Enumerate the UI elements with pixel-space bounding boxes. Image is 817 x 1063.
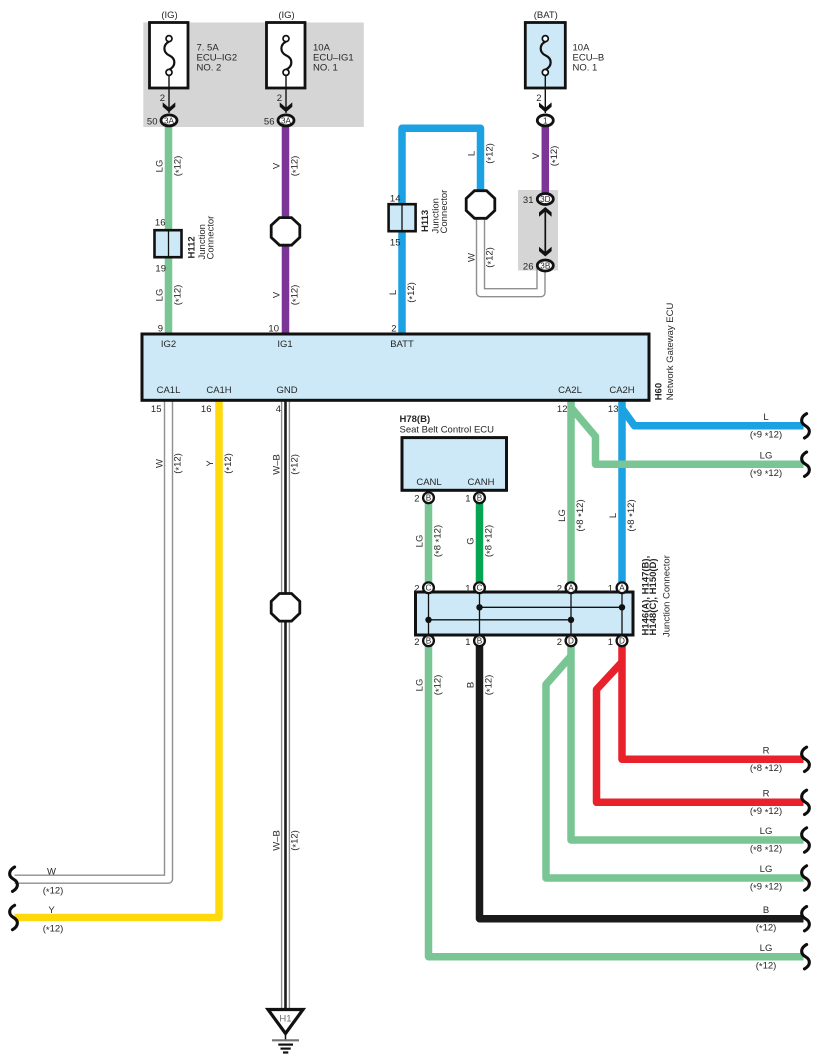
svg-text:H1: H1 (279, 1014, 291, 1025)
svg-text:9: 9 (158, 324, 163, 335)
ECU H78(B) Seat Belt Control ECU box (402, 438, 507, 491)
svg-text:12: 12 (557, 404, 568, 415)
svg-text:(*8 *12): (*8 *12) (575, 499, 587, 531)
continuation symbol W left (10, 867, 18, 891)
connector 3D (537, 194, 553, 205)
svg-text:R: R (763, 746, 770, 757)
wire LG fuse ECU-IG2 to IG2 pin (net IG2) (165, 126, 173, 338)
svg-text:1: 1 (608, 583, 613, 594)
wire LG from junction connector D to right continuation (*8) (571, 645, 804, 840)
svg-text:NO. 1: NO. 1 (313, 62, 338, 73)
internal pin-through lines (428, 593, 430, 634)
connector pin 1 (B) CANH (474, 492, 485, 503)
svg-text:L: L (608, 513, 619, 518)
svg-text:B: B (763, 905, 769, 916)
svg-text:NO. 1: NO. 1 (573, 62, 598, 73)
svg-text:A: A (568, 584, 574, 593)
svg-text:(*8 *12): (*8 *12) (626, 499, 638, 531)
ground H1 (268, 1010, 303, 1034)
svg-text:Y: Y (48, 905, 55, 916)
svg-text:(*12): (*12) (289, 156, 301, 177)
wire W from octagon to connector 3B (481, 212, 542, 293)
svg-text:3A: 3A (164, 116, 175, 125)
svg-text:(IG): (IG) (161, 10, 177, 21)
svg-text:1: 1 (608, 637, 613, 648)
svg-text:(*12): (*12) (43, 885, 64, 897)
fuse 10A ECU-B NO.1 (525, 23, 565, 89)
svg-text:GND: GND (276, 385, 297, 396)
connector 1 (537, 115, 553, 126)
wire LG from CA2L pin to junction connector A (567, 400, 575, 590)
svg-text:(*9 *12): (*9 *12) (750, 882, 782, 894)
svg-text:W: W (47, 867, 56, 878)
svg-text:R: R (763, 789, 770, 800)
svg-text:2: 2 (391, 324, 396, 335)
svg-text:13: 13 (608, 404, 619, 415)
svg-text:IG2: IG2 (161, 339, 176, 350)
wire W-B ground wire from GND pin to ground H1 (281, 400, 290, 1009)
fuse lead line pin 2 (285, 75, 287, 114)
svg-text:2: 2 (557, 583, 562, 594)
continuation symbol LG right 3 (802, 866, 810, 890)
svg-text:B: B (426, 637, 432, 646)
svg-text:CANH: CANH (468, 477, 495, 488)
svg-text:(*12): (*12) (406, 282, 418, 303)
continuation symbol LG right (802, 452, 810, 476)
svg-text:2: 2 (557, 637, 562, 648)
svg-text:BATT: BATT (390, 339, 414, 350)
svg-text:CA1H: CA1H (206, 385, 231, 396)
connector 3A (left) (161, 115, 177, 126)
svg-text:Junction Connector: Junction Connector (661, 555, 672, 637)
svg-text:1: 1 (465, 493, 470, 504)
svg-text:(IG): (IG) (278, 10, 294, 21)
arrow to connector 1 (539, 102, 552, 112)
svg-text:LG: LG (414, 679, 425, 692)
octagon junction on IG1 wire (271, 218, 300, 246)
svg-text:(*12): (*12) (43, 924, 64, 936)
wire L from CA2H pin to junction connector A (618, 400, 626, 590)
junction connector block H146(A) H147(B) H148(C) H150(D) (416, 592, 634, 635)
svg-text:LG: LG (557, 509, 568, 522)
wire L battery feed: BATT pin up, right, down to junction octagon (402, 128, 481, 338)
continuation symbol LG right 4 (802, 945, 810, 969)
svg-text:Network Gateway ECU: Network Gateway ECU (665, 302, 676, 400)
continuation symbol LG right 2 (802, 828, 810, 852)
svg-text:10: 10 (268, 324, 279, 335)
svg-text:(*9 *12): (*9 *12) (750, 429, 782, 441)
svg-text:IG1: IG1 (277, 339, 292, 350)
svg-text:C: C (426, 584, 432, 593)
svg-text:(*8 *12): (*8 *12) (483, 525, 495, 557)
wire V fuse ECU-IG1 to IG1 pin (net IG1) (282, 126, 290, 338)
svg-text:2: 2 (277, 93, 282, 104)
svg-text:26: 26 (523, 261, 534, 272)
svg-text:1: 1 (465, 583, 470, 594)
svg-text:LG: LG (760, 826, 773, 837)
svg-text:B: B (477, 637, 483, 646)
svg-text:2: 2 (414, 493, 419, 504)
svg-text:W: W (154, 459, 165, 468)
svg-text:(*12): (*12) (289, 285, 301, 306)
grey fuse panel background (143, 23, 363, 128)
svg-text:16: 16 (201, 404, 212, 415)
svg-text:1: 1 (543, 116, 548, 125)
wire B from junction connector B to right continuation (480, 645, 804, 919)
svg-text:Connector: Connector (205, 216, 216, 260)
junction block bottom pins (423, 635, 434, 646)
svg-text:(*12): (*12) (289, 830, 301, 851)
svg-text:H112: H112 (186, 236, 197, 258)
continuation symbol L right (802, 414, 810, 438)
connector pin 2 (B) CANL (423, 492, 434, 503)
svg-text:56: 56 (264, 116, 275, 127)
svg-text:LG: LG (154, 289, 165, 302)
connector 3A (right) (278, 115, 294, 126)
continuation symbol R right (802, 747, 810, 771)
fuse lead line pin 2 (168, 75, 170, 114)
junction connector H112 (155, 230, 182, 257)
svg-text:B: B (465, 682, 476, 688)
connector 3B (537, 260, 553, 271)
svg-text:(*9 *12): (*9 *12) (750, 468, 782, 480)
svg-text:L: L (763, 412, 768, 423)
ECU H60 Network Gateway ECU box (142, 334, 649, 400)
fuse 10A ECU-IG1 NO.1 (267, 23, 306, 89)
svg-text:L: L (388, 290, 399, 295)
svg-text:B: B (426, 494, 432, 503)
svg-text:LG: LG (760, 943, 773, 954)
svg-text:W–B: W–B (271, 454, 282, 475)
wire LG from junction connector B to right continuation (429, 645, 804, 957)
svg-text:V: V (271, 291, 282, 298)
svg-text:(*12): (*12) (756, 960, 777, 972)
svg-text:Connector: Connector (439, 190, 450, 234)
wire R branch from junction connector D to right continuation (*9) (597, 662, 804, 802)
svg-text:(*8 *12): (*8 *12) (750, 763, 782, 775)
svg-text:(*8 *12): (*8 *12) (750, 844, 782, 856)
svg-text:3A: 3A (281, 116, 292, 125)
svg-text:(*12): (*12) (172, 453, 184, 474)
svg-text:3B: 3B (540, 262, 551, 271)
arrow to connector 3A (163, 102, 176, 112)
svg-text:15: 15 (390, 237, 401, 248)
svg-text:LG: LG (760, 864, 773, 875)
svg-text:4: 4 (276, 404, 281, 415)
svg-text:Seat Belt Control ECU: Seat Belt Control ECU (400, 424, 495, 435)
svg-text:CANL: CANL (416, 477, 441, 488)
svg-text:(*12): (*12) (483, 675, 495, 696)
svg-text:CA2L: CA2L (558, 385, 582, 396)
svg-text:W: W (466, 253, 477, 262)
svg-text:C: C (477, 584, 483, 593)
wire G from seat belt ECU CANH to junction connector C (476, 503, 484, 590)
svg-text:2: 2 (414, 637, 419, 648)
grey panel around connectors 3D/3B (518, 190, 558, 271)
svg-text:(*12): (*12) (172, 156, 184, 177)
continuation symbol B right (802, 907, 810, 931)
svg-text:W–B: W–B (271, 830, 282, 851)
svg-text:LG: LG (760, 450, 773, 461)
wire LG branch from junction connector D to right continuation (*9) (546, 656, 804, 878)
svg-text:31: 31 (523, 195, 534, 206)
svg-text:H78(B): H78(B) (400, 414, 431, 425)
svg-text:V: V (271, 162, 282, 169)
svg-text:H60: H60 (654, 383, 665, 400)
svg-text:L: L (466, 151, 477, 156)
svg-text:15: 15 (151, 404, 162, 415)
internal bus lower with junction dots (429, 619, 572, 621)
svg-text:16: 16 (155, 218, 166, 229)
svg-text:D: D (619, 637, 625, 646)
svg-text:LG: LG (414, 535, 425, 548)
junction block top pins (423, 582, 434, 593)
svg-text:V: V (531, 152, 542, 159)
continuation symbol Y left (10, 905, 18, 929)
svg-text:CA1L: CA1L (157, 385, 181, 396)
svg-text:2: 2 (414, 583, 419, 594)
svg-text:(*12): (*12) (756, 922, 777, 934)
svg-text:Y: Y (205, 460, 216, 467)
svg-text:(*8 *12): (*8 *12) (432, 525, 444, 557)
svg-text:1: 1 (465, 637, 470, 648)
svg-text:(*12): (*12) (289, 454, 301, 475)
svg-text:D: D (568, 637, 574, 646)
svg-text:(*12): (*12) (549, 146, 561, 167)
svg-text:G: G (465, 537, 476, 544)
svg-text:(*9 *12): (*9 *12) (750, 806, 782, 818)
svg-text:2: 2 (536, 93, 541, 104)
svg-text:19: 19 (155, 264, 166, 275)
double arrow between 3D and 3B (544, 211, 546, 253)
svg-text:(*12): (*12) (484, 247, 496, 268)
svg-text:14: 14 (390, 193, 401, 204)
arrow to connector 3A (280, 102, 293, 112)
svg-text:H113: H113 (420, 210, 431, 232)
svg-text:(BAT): (BAT) (534, 10, 558, 21)
svg-text:H148(C), H150(D): H148(C), H150(D) (648, 558, 659, 635)
wire R from junction connector D to right continuation (*8) (622, 645, 804, 759)
wire L branch from CA2H to right continuation (622, 409, 804, 426)
junction connector H113 (389, 204, 416, 231)
svg-text:2: 2 (160, 93, 165, 104)
wire LG from seat belt ECU CANL to junction connector C (425, 503, 433, 590)
wire V fuse ECU-B to connector 3D (542, 126, 550, 194)
continuation symbol R right 2 (802, 790, 810, 814)
octagon junction on battery L/W wire (466, 191, 495, 219)
svg-text:LG: LG (154, 160, 165, 173)
fuse lead line pin 2 (544, 75, 546, 114)
svg-text:3D: 3D (540, 195, 551, 204)
wire W from CA1L pin to left continuation (15, 400, 169, 879)
svg-text:A: A (619, 584, 625, 593)
octagon junction on ground W-B wire (271, 594, 300, 622)
svg-text:(*12): (*12) (223, 453, 235, 474)
fuse 7.5A ECU-IG2 NO.2 (150, 23, 189, 89)
svg-text:(*12): (*12) (172, 285, 184, 306)
svg-text:NO. 2: NO. 2 (197, 62, 222, 73)
svg-text:B: B (477, 494, 483, 503)
wire Y from CA1H pin to left continuation (15, 400, 220, 918)
svg-text:(*12): (*12) (484, 143, 496, 164)
svg-text:CA2H: CA2H (609, 385, 634, 396)
svg-text:50: 50 (147, 116, 158, 127)
internal bus upper with junction dots (480, 606, 623, 608)
svg-text:(*12): (*12) (432, 675, 444, 696)
wire LG branch from CA2L to right continuation (571, 408, 804, 465)
